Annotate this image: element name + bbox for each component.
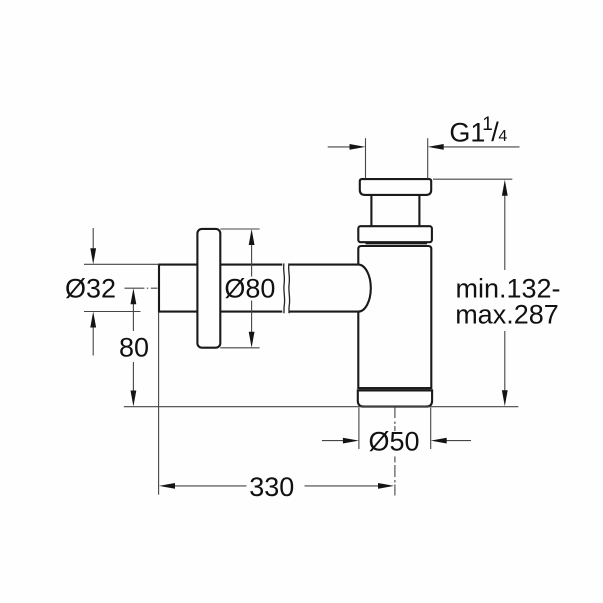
dimension Ø80 : extension lines	[220, 229, 259, 348]
dimension min.132-max.287 : extension line	[433, 178, 512, 180]
dimension G1 1/4 : arrows	[350, 144, 444, 150]
bottom cap	[358, 390, 432, 406]
wall flange (escutcheon)	[197, 229, 220, 348]
svg-text:Ø32: Ø32	[65, 274, 116, 304]
svg-text:max.287: max.287	[455, 300, 559, 330]
pipe end arc inside body	[358, 265, 370, 312]
dimension G1 1/4 : dimension lines	[328, 146, 520, 148]
pipe break squiggle	[284, 263, 290, 313]
dimension Ø32 : extension lines	[84, 264, 159, 311]
coupling ring	[358, 226, 432, 242]
dimension Ø50 : arrows	[343, 438, 447, 444]
svg-text:Ø80: Ø80	[224, 273, 275, 303]
dimension G1 1/4 : extension lines	[366, 138, 428, 178]
svg-text:Ø50: Ø50	[368, 426, 419, 456]
dimension Ø80 : arrows	[249, 229, 255, 348]
dimension Ø50 : dimension lines	[322, 440, 471, 442]
dimension 330 : extension line	[158, 313, 160, 495]
svg-text:4: 4	[498, 128, 507, 145]
dimension 330 : dimension line	[174, 485, 378, 487]
horizontal inlet pipe (wall tube)	[159, 264, 358, 313]
svg-text:G1: G1	[449, 118, 485, 148]
dimension Ø32 : arrows	[90, 248, 96, 327]
dimension 80 : arrows	[131, 288, 137, 406]
bottom centerline of body (dash-dot)	[394, 408, 396, 496]
dimension Ø80 : dimension line	[251, 245, 253, 333]
dimension Ø50 : extension lines	[359, 408, 431, 450]
dimension min.132-max.287 : arrows	[502, 180, 508, 406]
dimension min.132-max.287 : dimension line	[504, 195, 506, 392]
label min.132-max.287	[455, 273, 560, 329]
svg-text:80: 80	[119, 333, 149, 363]
trap body cylinder	[358, 246, 431, 388]
dimension 80 : dimension line	[132, 304, 134, 391]
svg-text:330: 330	[249, 472, 294, 502]
thin seam line under coupling	[366, 243, 428, 245]
top flange nut	[360, 179, 431, 195]
dimension Ø32 : arrow shafts	[92, 228, 94, 356]
pipe centerline (dash-dot)	[125, 287, 158, 289]
label G1 1/4	[449, 114, 507, 148]
floor reference line	[124, 406, 519, 408]
dimension 330 : arrows	[159, 483, 394, 489]
vertical tube between top nut and coupling	[371, 194, 419, 227]
